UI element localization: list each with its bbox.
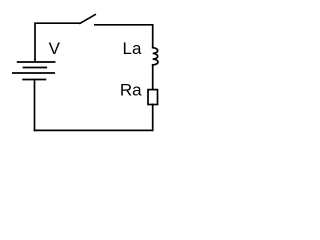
svg-text:La: La [123, 39, 142, 58]
battery V plate 1 (long) [18, 61, 55, 63]
battery V plate 3 (long) [13, 72, 54, 74]
svg-text:Ra: Ra [120, 81, 142, 100]
wire top-left (battery positive to switch) [35, 23, 80, 61]
wire (inductor to resistor) [152, 65, 154, 90]
switch S (open blade) [80, 15, 95, 24]
wire top-right (switch to inductor) [95, 25, 153, 48]
inductor La (coil) [153, 48, 158, 65]
wire (resistor to bottom) and bottom return wire [35, 105, 153, 131]
battery V plate 2 (short) [24, 67, 47, 69]
svg-text:V: V [49, 39, 61, 58]
wire (battery negative to bottom) [34, 80, 36, 131]
battery V plate 4 (short) [23, 79, 45, 81]
resistor Ra (box) [148, 90, 158, 105]
